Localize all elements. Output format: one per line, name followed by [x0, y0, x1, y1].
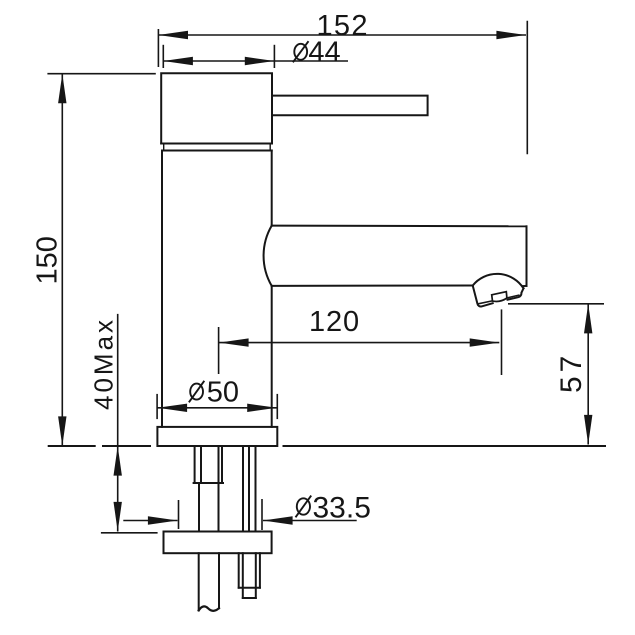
svg-text:150: 150: [32, 236, 64, 284]
svg-text:40Max: 40Max: [89, 317, 119, 410]
svg-text:50: 50: [207, 377, 239, 409]
svg-text:57: 57: [555, 352, 588, 393]
svg-text:33.5: 33.5: [313, 492, 371, 525]
svg-text:120: 120: [309, 306, 360, 338]
svg-text:44: 44: [308, 37, 340, 69]
